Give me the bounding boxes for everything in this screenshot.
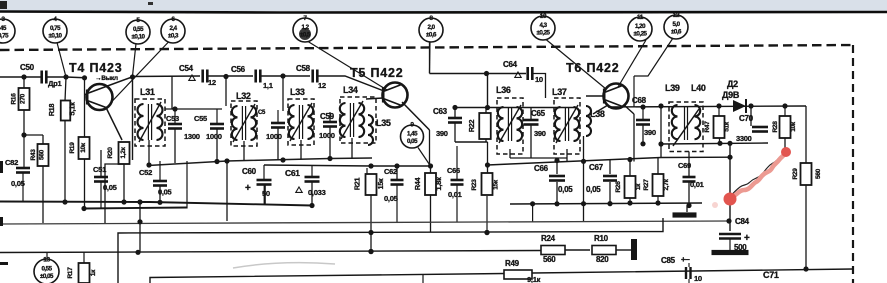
delta mark C54 [189, 75, 195, 80]
wire L31 bottom pin [148, 140, 150, 165]
svg-text:0,75: 0,75 [50, 25, 61, 32]
svg-text:390: 390 [436, 129, 448, 138]
red smudge [712, 202, 718, 208]
node detector rail C84 riser [727, 141, 732, 146]
capacitor C50 [42, 71, 47, 84]
wire L32 top feed [225, 77, 227, 107]
capacitor C65 [524, 120, 539, 125]
test point 6 [161, 16, 185, 43]
wire C66 bottom lead [456, 185, 458, 222]
AGC line [0, 221, 729, 224]
node AGC take-off [727, 155, 732, 160]
capacitor C66 [451, 180, 464, 185]
svg-text:560: 560 [815, 168, 822, 179]
node at C50 rail [21, 74, 26, 79]
svg-text:L33: L33 [290, 87, 305, 97]
wire C55 top lead [216, 109, 218, 124]
test point 12 [664, 12, 688, 39]
supply line y252 [0, 251, 541, 253]
dashed shield border horizontal [0, 45, 853, 50]
wire C84 riser [729, 143, 731, 231]
wire C52 top lead [159, 161, 161, 180]
node bus1 a [62, 199, 67, 204]
node R47 bottom [717, 141, 722, 146]
node C71 line [803, 266, 808, 271]
node supply drop AGC [137, 219, 142, 224]
svg-text:C60: C60 [242, 167, 257, 176]
node R21 bias junction [368, 163, 373, 168]
resistor R10 [592, 246, 616, 255]
wire node down to R16 [23, 77, 25, 88]
wire bias rail T5 [371, 165, 431, 167]
wire tank rail stage4 [455, 107, 576, 109]
wire R27 bottom lead [657, 196, 659, 203]
leader line from test point 10 [546, 40, 606, 90]
transformer core lines [685, 106, 688, 140]
wire C52 bottom lead [159, 186, 161, 202]
inductor L36 winding [498, 105, 522, 143]
capacitor C68 [636, 120, 650, 125]
inductor L37 winding [555, 105, 579, 143]
svg-text:1,1: 1,1 [263, 81, 274, 90]
capacitor C70 [752, 127, 768, 132]
wire R47 bottom lead [719, 138, 721, 144]
wire tank tap vertical [132, 77, 134, 161]
svg-text:11: 11 [637, 14, 644, 21]
svg-text:L37: L37 [552, 87, 567, 97]
resistor R49 [504, 270, 532, 279]
node L38 bias [581, 159, 586, 164]
svg-text:1,8к: 1,8к [434, 177, 443, 191]
svg-text:C64: C64 [503, 60, 518, 69]
wire R18 top slant [65, 77, 66, 101]
wire R28 to C84 node diagonal [730, 152, 785, 197]
wire T4 emitter [106, 108, 122, 141]
wire C63 bottom lead [454, 123, 456, 142]
resistor R47 [714, 116, 725, 138]
wire R18 bottom vertical [64, 121, 66, 203]
wire C59 top lead [329, 112, 331, 121]
top blue-grey margin band [0, 0, 887, 11]
node base column top [82, 75, 87, 80]
wire bias rail from R23 [488, 158, 662, 166]
svg-text:R23: R23 [471, 179, 478, 191]
wire C66 mid top lead [556, 161, 558, 175]
wire C62 bottom lead [396, 185, 398, 222]
wire C55 bottom lead [216, 129, 218, 162]
wire mid bottom rail stage4 [510, 157, 567, 159]
capacitor C84 [719, 234, 741, 239]
wire C61 bottom lead [311, 182, 313, 206]
top tick mark [148, 2, 153, 5]
wire collector supply riser [429, 42, 431, 74]
faint smudge arc [233, 263, 335, 268]
svg-text:R26: R26 [615, 181, 622, 193]
leader line from test point 6 [110, 43, 168, 104]
node C61 bottom [309, 203, 314, 208]
capacitor C57 [271, 123, 285, 128]
wire L36 bottom pin [509, 149, 511, 158]
wire C64 to L37 [533, 74, 546, 99]
wire R22 bottom lead [485, 139, 487, 142]
wire rail corner to R29 [805, 106, 807, 163]
wire R22 top lead [485, 108, 487, 114]
svg-text:50: 50 [262, 189, 270, 198]
node ground rail c [655, 200, 660, 205]
svg-text:1к: 1к [90, 269, 97, 276]
node ground rail a [607, 201, 612, 206]
wire L34 bottom pin [351, 138, 353, 159]
ground bus line 2 [84, 208, 187, 209]
node supply b [368, 249, 373, 254]
svg-text:C56: C56 [231, 65, 246, 74]
wire C60 top lead [263, 165, 265, 180]
node R22 rail [485, 105, 490, 110]
svg-text:C59: C59 [320, 112, 335, 121]
resistor R44 [425, 173, 436, 195]
svg-text:C65: C65 [531, 109, 546, 118]
wire C65 top lead [530, 108, 532, 120]
svg-text:560: 560 [39, 149, 46, 160]
node C63 rail [452, 105, 457, 110]
wire L32 bottom pin [243, 141, 245, 161]
node bus1 b [121, 199, 126, 204]
node tank rail C53 [172, 106, 177, 111]
node L33 top feed [280, 73, 285, 78]
svg-text:L35: L35 [376, 118, 391, 128]
wire test13 stub [46, 252, 48, 260]
ground symbol C69 [673, 212, 697, 217]
resistor R26 [625, 176, 636, 198]
resistor R19 [79, 137, 90, 159]
svg-text:C50: C50 [20, 63, 35, 72]
wire C53 bottom lead [174, 129, 176, 163]
wire detector rail [608, 106, 806, 107]
wire C85 bottom lead [688, 279, 690, 283]
svg-text:1,2к: 1,2к [120, 146, 127, 158]
node L38 ground rail [581, 201, 586, 206]
inductor L38 winding [586, 106, 591, 136]
inductor L32 winding [232, 104, 256, 142]
svg-text:±0,05: ±0,05 [40, 273, 54, 280]
wire C68 top lead [642, 107, 644, 119]
wire C84 ground lead [729, 239, 731, 250]
wire R28 top lead [784, 106, 786, 116]
transistor T6 [604, 84, 629, 109]
svg-text:R19: R19 [69, 142, 76, 154]
svg-text:1000: 1000 [206, 132, 222, 141]
svg-text:C62: C62 [384, 167, 397, 176]
svg-text:560: 560 [543, 255, 556, 264]
wire C65 bottom lead [530, 125, 532, 158]
top border line [0, 12, 887, 13]
svg-text:C85: C85 [661, 256, 676, 265]
wire C60 C61 top rail [264, 165, 371, 166]
svg-text:Д9В: Д9В [722, 90, 740, 100]
wire C85 top lead [688, 263, 690, 267]
test point 4 [43, 16, 67, 43]
node bus2 a [81, 206, 86, 211]
connector bar [631, 239, 637, 260]
test point 7 (ink blotted) [293, 15, 317, 42]
node C62 rail [394, 163, 399, 168]
svg-text:2,7к: 2,7к [663, 178, 670, 190]
svg-text:3300: 3300 [736, 134, 752, 143]
wire C68 bottom lead [642, 125, 644, 144]
wire C60 bottom lead [264, 185, 266, 205]
leader line from test point 12 [634, 38, 673, 76]
capacitor C61 [305, 177, 320, 182]
inductor L34 winding [340, 101, 364, 139]
svg-text:0,05: 0,05 [407, 138, 418, 145]
svg-text:R47: R47 [704, 121, 711, 133]
resistor R21 [366, 174, 377, 195]
leader line from test point 4 [57, 43, 66, 78]
inductor L33 winding [289, 103, 313, 141]
wire T6 base feed [586, 95, 605, 97]
node bus1 d [157, 200, 162, 205]
wire T4 collector up [106, 77, 132, 87]
svg-text:R20: R20 [107, 147, 114, 159]
wire C54 to stage2 [208, 75, 253, 77]
wire C66 mid bottom lead [556, 182, 558, 204]
wire input rail left [0, 76, 41, 78]
test point 13 [34, 257, 59, 283]
wire T5 emitter [402, 102, 430, 130]
wire R26 top lead [629, 160, 631, 177]
svg-text:Д2: Д2 [727, 79, 738, 89]
wire R26 bottom lead [629, 198, 631, 203]
transistor T5 [383, 83, 408, 108]
wire R47 top lead [718, 106, 720, 116]
wire C57 bottom lead [277, 128, 279, 160]
svg-text:0,01: 0,01 [690, 180, 705, 189]
svg-text:C53: C53 [166, 114, 179, 123]
svg-text:±0,10: ±0,10 [49, 33, 63, 40]
svg-text:C66: C66 [447, 166, 460, 175]
svg-text:15к: 15к [493, 179, 500, 190]
svg-text:5,0: 5,0 [672, 21, 680, 28]
wire C82 top lead [23, 135, 25, 167]
svg-text:10: 10 [694, 274, 702, 283]
node bottom rail 5 [327, 156, 332, 161]
test point 3 (cut off at left edge) [0, 16, 15, 43]
svg-text:C5: C5 [258, 110, 266, 116]
svg-text:C52: C52 [139, 168, 152, 177]
wire C61 top lead [311, 166, 313, 176]
svg-text:±0,6: ±0,6 [426, 32, 437, 39]
svg-text:12: 12 [673, 12, 680, 19]
capacitor C69 [683, 177, 696, 182]
svg-text:R27: R27 [643, 179, 650, 191]
node C68 bottom [640, 141, 645, 146]
wire C67 top lead [609, 160, 611, 174]
svg-text:1,45: 1,45 [407, 131, 418, 138]
capacitor C58 [313, 70, 318, 83]
capacitor C52 [153, 181, 167, 186]
svg-text:10: 10 [535, 75, 543, 84]
resistor R28 [780, 116, 791, 138]
wire L37 bottom pin [566, 149, 568, 162]
wire R28 bottom lead [784, 138, 786, 150]
resistor R23 [482, 173, 493, 195]
svg-text:L36: L36 [496, 85, 511, 95]
red annotation start blob [724, 193, 737, 206]
wire T4 base [85, 94, 88, 96]
wire R23 bottom lead [486, 196, 488, 233]
wire R24 to R10 [565, 249, 590, 251]
wire C82 bottom lead [22, 173, 24, 202]
wire R27 top lead [657, 158, 659, 174]
svg-text:0,01: 0,01 [448, 190, 463, 199]
test point 9 in circuit [401, 122, 424, 148]
node collector junction [130, 74, 135, 79]
wire R43 top lead [42, 135, 44, 144]
wire R20 down [123, 164, 125, 202]
capacitor C85 [686, 267, 691, 279]
svg-text:+–: +– [681, 255, 690, 264]
delta mark C61 [296, 187, 302, 192]
wire tank top rail stage1 [165, 108, 222, 110]
wire vertical tank bottom to bus [226, 161, 228, 221]
svg-text:±0,25: ±0,25 [634, 31, 648, 38]
svg-text:2,0: 2,0 [427, 24, 435, 31]
wire detector bottom rail [661, 143, 768, 144]
svg-text:C61: C61 [285, 168, 300, 178]
inductor L37 shield box [554, 98, 580, 154]
svg-text:R49: R49 [505, 259, 520, 268]
node R23 bottom [484, 230, 489, 235]
svg-text:R18: R18 [47, 104, 56, 117]
capacitor C56 [256, 70, 261, 83]
wire C59 bottom lead [329, 127, 331, 159]
wire R19 up [84, 78, 86, 137]
left edge dash mark [0, 262, 8, 265]
svg-text:12: 12 [318, 81, 326, 90]
wire R23 top lead [487, 142, 489, 174]
wire emitter drop T6 [633, 114, 635, 162]
wire R19 down [84, 159, 86, 209]
wire ground stub [686, 206, 688, 213]
inductor L39 L40 shield box [669, 102, 703, 152]
leader line from test point 11 [618, 40, 646, 87]
node bottom rail 2 [214, 159, 219, 164]
wire C63 top lead [454, 108, 456, 118]
wire C56 to C58 [261, 75, 310, 77]
capacitor C63 [448, 118, 462, 123]
wire R43 down to AGC line [42, 166, 44, 223]
wire C50 to node [47, 76, 66, 78]
svg-text:2,4: 2,4 [169, 25, 177, 32]
svg-text:1300: 1300 [184, 132, 200, 141]
svg-text:R29: R29 [792, 168, 799, 180]
svg-text:R24: R24 [541, 234, 556, 243]
wire R44 bottom lead [430, 195, 432, 232]
svg-text:Т5 П422: Т5 П422 [350, 66, 404, 80]
node bottom rail 4 [280, 157, 285, 162]
capacitor C67 [603, 176, 617, 181]
svg-text:1,20: 1,20 [635, 23, 646, 30]
node bus1 c [137, 199, 142, 204]
wire ground rail drop to AGC [532, 204, 534, 222]
leader line from test point 9 [418, 148, 431, 167]
inductor L36 shield box [497, 98, 523, 154]
capacitor C55 [210, 124, 224, 129]
diode D2 [733, 99, 746, 113]
svg-text:C84: C84 [735, 217, 750, 226]
node ground rail drop [530, 201, 535, 206]
svg-text:51к: 51к [724, 121, 731, 132]
node rail R47 [716, 103, 721, 108]
capacitor C53 [168, 124, 182, 129]
capacitor C59 [323, 122, 337, 127]
ground rail T6 emitters [510, 203, 702, 204]
wire L33 top feed [282, 76, 284, 111]
node L39 outer top [658, 103, 663, 108]
svg-text:R28: R28 [772, 121, 779, 133]
inductor L39 winding [672, 105, 678, 139]
node bias rail left end [485, 162, 490, 167]
node R44 top [428, 163, 433, 168]
wire T6 collector [593, 105, 608, 114]
node rail C70 [748, 103, 753, 108]
node ground rail d [686, 203, 691, 208]
left edge stub mark 2 [0, 217, 3, 226]
node ground rail b [627, 200, 632, 205]
svg-text:C55: C55 [194, 114, 207, 123]
svg-text:R22: R22 [467, 120, 476, 133]
svg-text:L38: L38 [590, 109, 605, 119]
svg-text:4,3: 4,3 [539, 22, 547, 29]
svg-text:820: 820 [596, 255, 609, 264]
dashed shield border vertical right [852, 45, 854, 283]
svg-text:R21: R21 [353, 178, 362, 191]
wire T6 emitter [624, 105, 634, 114]
svg-text:±0,10: ±0,10 [132, 34, 146, 41]
test point 8 [419, 15, 443, 42]
capacitor C62 [391, 180, 404, 185]
svg-text:C67: C67 [589, 163, 604, 172]
svg-text:L34: L34 [343, 85, 358, 95]
wire R21 bottom lead [370, 195, 372, 252]
capacitor C51 [94, 177, 108, 182]
svg-text:R17: R17 [67, 267, 74, 279]
wire emitter branch elbow [105, 164, 124, 224]
node bottom rail 1 [146, 162, 151, 167]
svg-text:R43: R43 [30, 149, 37, 161]
capacitor C64 [528, 67, 533, 80]
node bias rail T6 b [627, 157, 632, 162]
ground symbol C84 [712, 250, 749, 255]
inductor L31 winding [138, 102, 163, 142]
svg-text:0,05: 0,05 [558, 185, 573, 194]
svg-text:L40: L40 [691, 83, 706, 93]
svg-text:0,05: 0,05 [103, 183, 118, 192]
wire rail drop to tank [171, 76, 173, 109]
svg-text:C51: C51 [93, 165, 107, 174]
resistor R43 [38, 144, 49, 166]
wire C67 bottom lead [609, 182, 611, 204]
resistor R17 [79, 263, 90, 283]
svg-text:C82: C82 [5, 158, 18, 167]
wire bias rail link [660, 144, 662, 158]
svg-text:10к: 10к [790, 121, 797, 132]
wire C53 top lead [174, 109, 176, 124]
svg-text:C54: C54 [179, 64, 194, 73]
svg-text:0,55: 0,55 [133, 26, 144, 33]
node C66 mid top [554, 158, 559, 163]
corner partial glyph [0, 1, 7, 9]
